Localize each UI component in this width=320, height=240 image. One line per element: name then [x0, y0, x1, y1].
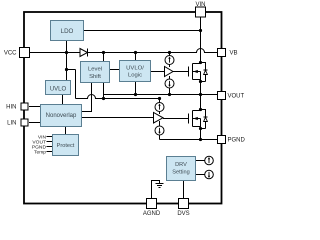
svg-text:LIN: LIN — [7, 121, 16, 127]
wire UVLO/Logic top — [135, 53, 137, 61]
diode D1 — [80, 49, 88, 57]
driver HS triangle — [165, 67, 174, 77]
transistor Q1 high-side — [189, 64, 201, 95]
protect input stubs — [47, 137, 53, 152]
wire LDO out — [84, 30, 201, 32]
wire DRV to sources — [196, 161, 205, 175]
wire level shift to logic — [110, 69, 120, 71]
block UVLO — [46, 81, 71, 95]
wire UVLO/Logic bottom — [135, 82, 137, 95]
svg-text:VB: VB — [230, 51, 238, 57]
svg-text:UVLO/: UVLO/ — [126, 65, 144, 71]
current source I3 — [155, 103, 164, 112]
wire LS gate — [163, 118, 189, 120]
svg-text:DRV: DRV — [175, 162, 187, 168]
arrow Q2 body — [193, 117, 198, 120]
wire HIN — [29, 106, 41, 108]
pin HIN — [21, 103, 28, 110]
wire HS stack — [169, 53, 171, 95]
junction dots — [65, 29, 202, 141]
pin VCC — [20, 48, 30, 58]
svg-text:Shift: Shift — [89, 74, 101, 80]
wire level shift top — [103, 53, 105, 62]
driver LS triangle — [154, 113, 164, 124]
body diode Q2 — [201, 110, 208, 129]
block UVLO/Logic — [120, 61, 151, 82]
wire branch down — [75, 70, 77, 99]
svg-text:PGND: PGND — [228, 138, 246, 144]
block Nonoverlap — [41, 105, 82, 127]
pin LIN — [21, 119, 28, 126]
wire PGND row — [160, 139, 218, 141]
wire LIN — [29, 122, 41, 124]
svg-text:DVS: DVS — [177, 211, 189, 217]
body diode Q1 — [201, 63, 208, 82]
pin VB — [218, 49, 226, 57]
wire row B with hop — [76, 95, 160, 103]
svg-text:Nonoverlap: Nonoverlap — [46, 113, 77, 119]
svg-text:Level: Level — [88, 66, 102, 72]
wire switch node row — [104, 94, 218, 96]
current source I6 — [205, 170, 214, 179]
wire UVLO to nonoverlap — [62, 95, 64, 105]
svg-text:Logic: Logic — [128, 72, 142, 78]
block Protect — [53, 135, 79, 156]
pin DVS — [179, 199, 189, 209]
wire nonoverlap to LS driver — [82, 117, 154, 119]
current source I4 — [155, 126, 164, 135]
svg-text:VOUT: VOUT — [228, 94, 245, 100]
wire DRV to DVS — [183, 181, 185, 200]
current source I1 — [165, 56, 174, 65]
svg-text:Protect: Protect — [57, 143, 75, 149]
wire HS gate — [173, 71, 189, 73]
wire level shift bottom — [103, 83, 105, 99]
body diode Q2 triangle — [204, 117, 208, 121]
wire to level shift left — [67, 69, 76, 71]
body diode Q1 triangle — [204, 70, 208, 74]
block LDO — [51, 21, 84, 41]
arrow Q1 body — [193, 70, 198, 73]
current source I5 — [205, 156, 214, 165]
transistor Q2 low-side — [189, 95, 201, 140]
block Level Shift — [81, 62, 110, 83]
IC outline — [24, 12, 222, 204]
wire VCC rail — [29, 49, 218, 53]
svg-text:UVLO: UVLO — [50, 86, 67, 92]
wire LDO to UVLO — [66, 41, 68, 81]
pin PGND — [218, 136, 226, 144]
wire nonoverlap to protect — [65, 127, 67, 135]
current source I2 — [165, 79, 174, 88]
svg-text:AGND: AGND — [143, 211, 161, 217]
block DRV Setting — [167, 157, 196, 181]
pin VIN — [196, 7, 206, 17]
pin AGND — [147, 199, 157, 209]
wire LS stack — [159, 112, 161, 140]
protect input labels — [32, 134, 47, 155]
wire VIN down — [200, 17, 202, 64]
wire AGND — [152, 181, 160, 200]
svg-text:HIN: HIN — [6, 105, 16, 111]
pin VOUT — [218, 92, 226, 100]
wire logic to HS driver — [151, 71, 165, 73]
svg-text:LDO: LDO — [61, 28, 74, 35]
svg-text:VIN: VIN — [195, 2, 205, 8]
svg-text:Temp: Temp — [34, 149, 46, 155]
svg-text:Setting: Setting — [172, 170, 189, 176]
ground — [156, 184, 164, 188]
svg-text:VCC: VCC — [4, 51, 17, 57]
wire level shift to nonoverlap — [82, 83, 92, 112]
